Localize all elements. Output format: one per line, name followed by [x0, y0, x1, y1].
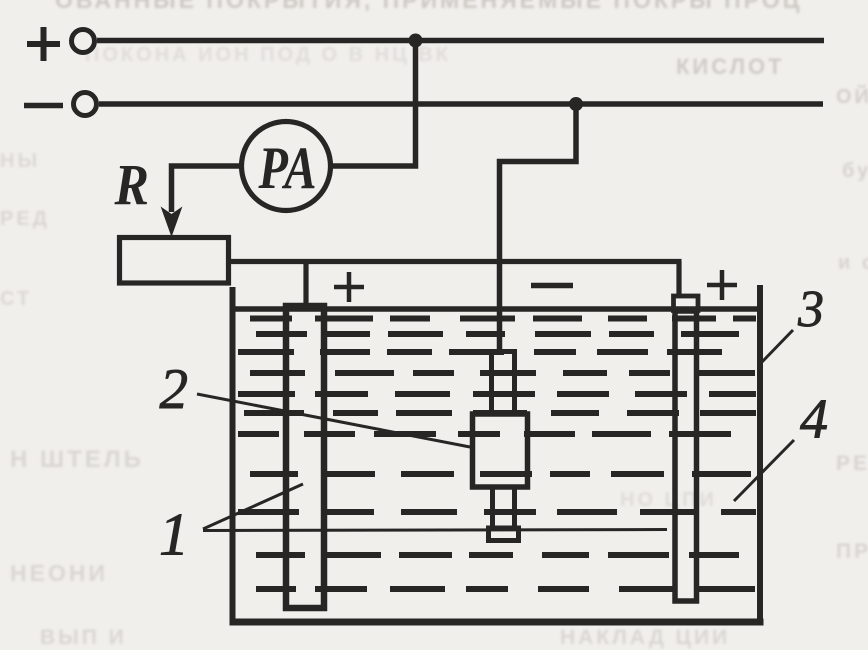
leader for 1 to right anode	[203, 530, 667, 531]
node: junction on − bus	[569, 97, 583, 111]
electrolyte dash row y=373	[250, 370, 755, 376]
tank right wall	[757, 285, 763, 625]
wire: drop to right anode	[676, 262, 681, 298]
label + over right anode	[707, 270, 737, 300]
ammeter PA circle	[242, 122, 331, 211]
electrolyte surface line	[232, 306, 760, 312]
svg-text:3: 3	[797, 281, 824, 338]
svg-text:2: 2	[160, 358, 189, 421]
electrolyte dash row y=394	[238, 391, 756, 397]
svg-text:R: R	[114, 152, 149, 217]
central cathode 2: upper stem	[492, 352, 515, 415]
tank bottom	[230, 619, 764, 626]
electrolyte dash row y=334	[256, 331, 739, 337]
wire: drop to left anode	[303, 262, 308, 310]
central cathode 2: lower stem	[493, 487, 515, 528]
right anode plate 1	[675, 311, 697, 601]
dashes of electrolyte rows	[238, 319, 756, 590]
wire: ammeter to rheostat arrow corner	[172, 166, 242, 212]
leader for 2	[197, 394, 470, 447]
node: junction on + bus	[409, 34, 423, 48]
electrolyte dash row y=318	[250, 316, 756, 322]
tank left wall	[230, 287, 236, 625]
central cathode 2: body	[473, 414, 528, 487]
electrolyte dash row y=413	[244, 410, 756, 416]
electrolyte dash row y=589	[256, 586, 755, 592]
svg-text:PA: PA	[258, 135, 317, 201]
terminal circle (+)	[72, 30, 95, 53]
ghost bleed-through right block	[676, 54, 785, 80]
label + over left anode	[334, 272, 364, 302]
central cathode 2: foot	[489, 528, 519, 541]
leader for 4	[734, 440, 794, 501]
polarity labels in tank	[334, 270, 737, 302]
wire: rheostat output to anode bus	[228, 259, 682, 264]
electrolyte dash row y=512	[238, 509, 756, 515]
resistor R box	[120, 238, 229, 284]
right anode hanger square	[674, 296, 699, 311]
electrolyte dash row y=555	[256, 552, 739, 558]
electrolyte dash row y=434	[238, 431, 731, 437]
arrowhead of rheostat R	[161, 207, 183, 238]
terminal circle (−)	[74, 93, 97, 116]
leader for 1 to left anode	[203, 484, 303, 529]
leader for 3	[761, 330, 793, 363]
ghost bleed-through text top strip	[55, 0, 802, 14]
left anode plate 1	[286, 306, 324, 608]
tank and electrolyte	[230, 285, 764, 625]
wire: − bus down to central electrode	[500, 104, 577, 352]
ghost bleed-through mid-left	[10, 446, 144, 474]
minus terminal symbol (− of supply)	[24, 103, 63, 109]
label − over cathode	[531, 283, 573, 289]
wire: bottom (−) bus	[99, 101, 823, 107]
svg-text:1: 1	[159, 502, 189, 568]
electrolyte dash row y=352	[238, 349, 722, 355]
wire: top (+) bus	[97, 38, 824, 44]
leader lines	[197, 330, 794, 531]
plus terminal symbol (+ of supply)	[27, 27, 60, 61]
wire: + bus down to ammeter	[331, 41, 416, 167]
svg-text:4: 4	[800, 389, 828, 451]
ghost bleed-through lower strips	[10, 560, 108, 587]
electrolyte dash row y=474	[250, 471, 751, 477]
